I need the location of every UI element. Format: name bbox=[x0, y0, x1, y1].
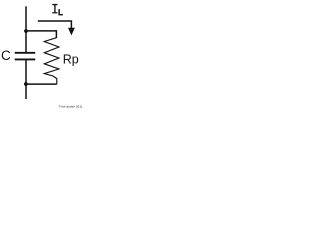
wire: bottom horizontal bbox=[26, 83, 57, 85]
svg-text:Rp: Rp bbox=[63, 52, 79, 66]
wire: top horizontal to resistor with bend down bbox=[26, 31, 56, 38]
current arrow I_L shaft bbox=[38, 21, 72, 29]
wire: bottom vertical lead bbox=[25, 60, 27, 99]
svg-text:C: C bbox=[1, 48, 11, 63]
current arrow I_L head bbox=[68, 28, 75, 36]
svg-text:© the author 2011: © the author 2011 bbox=[59, 104, 83, 108]
resistor Rp zigzag bbox=[44, 38, 59, 84]
node: top junction dot bbox=[24, 29, 28, 33]
capacitor C: top plate bbox=[15, 52, 36, 54]
capacitor C: bottom plate bbox=[15, 58, 36, 60]
wire: top vertical lead bbox=[25, 6, 27, 52]
label: I_L current bbox=[52, 4, 63, 16]
node: bottom junction dot bbox=[24, 82, 28, 86]
